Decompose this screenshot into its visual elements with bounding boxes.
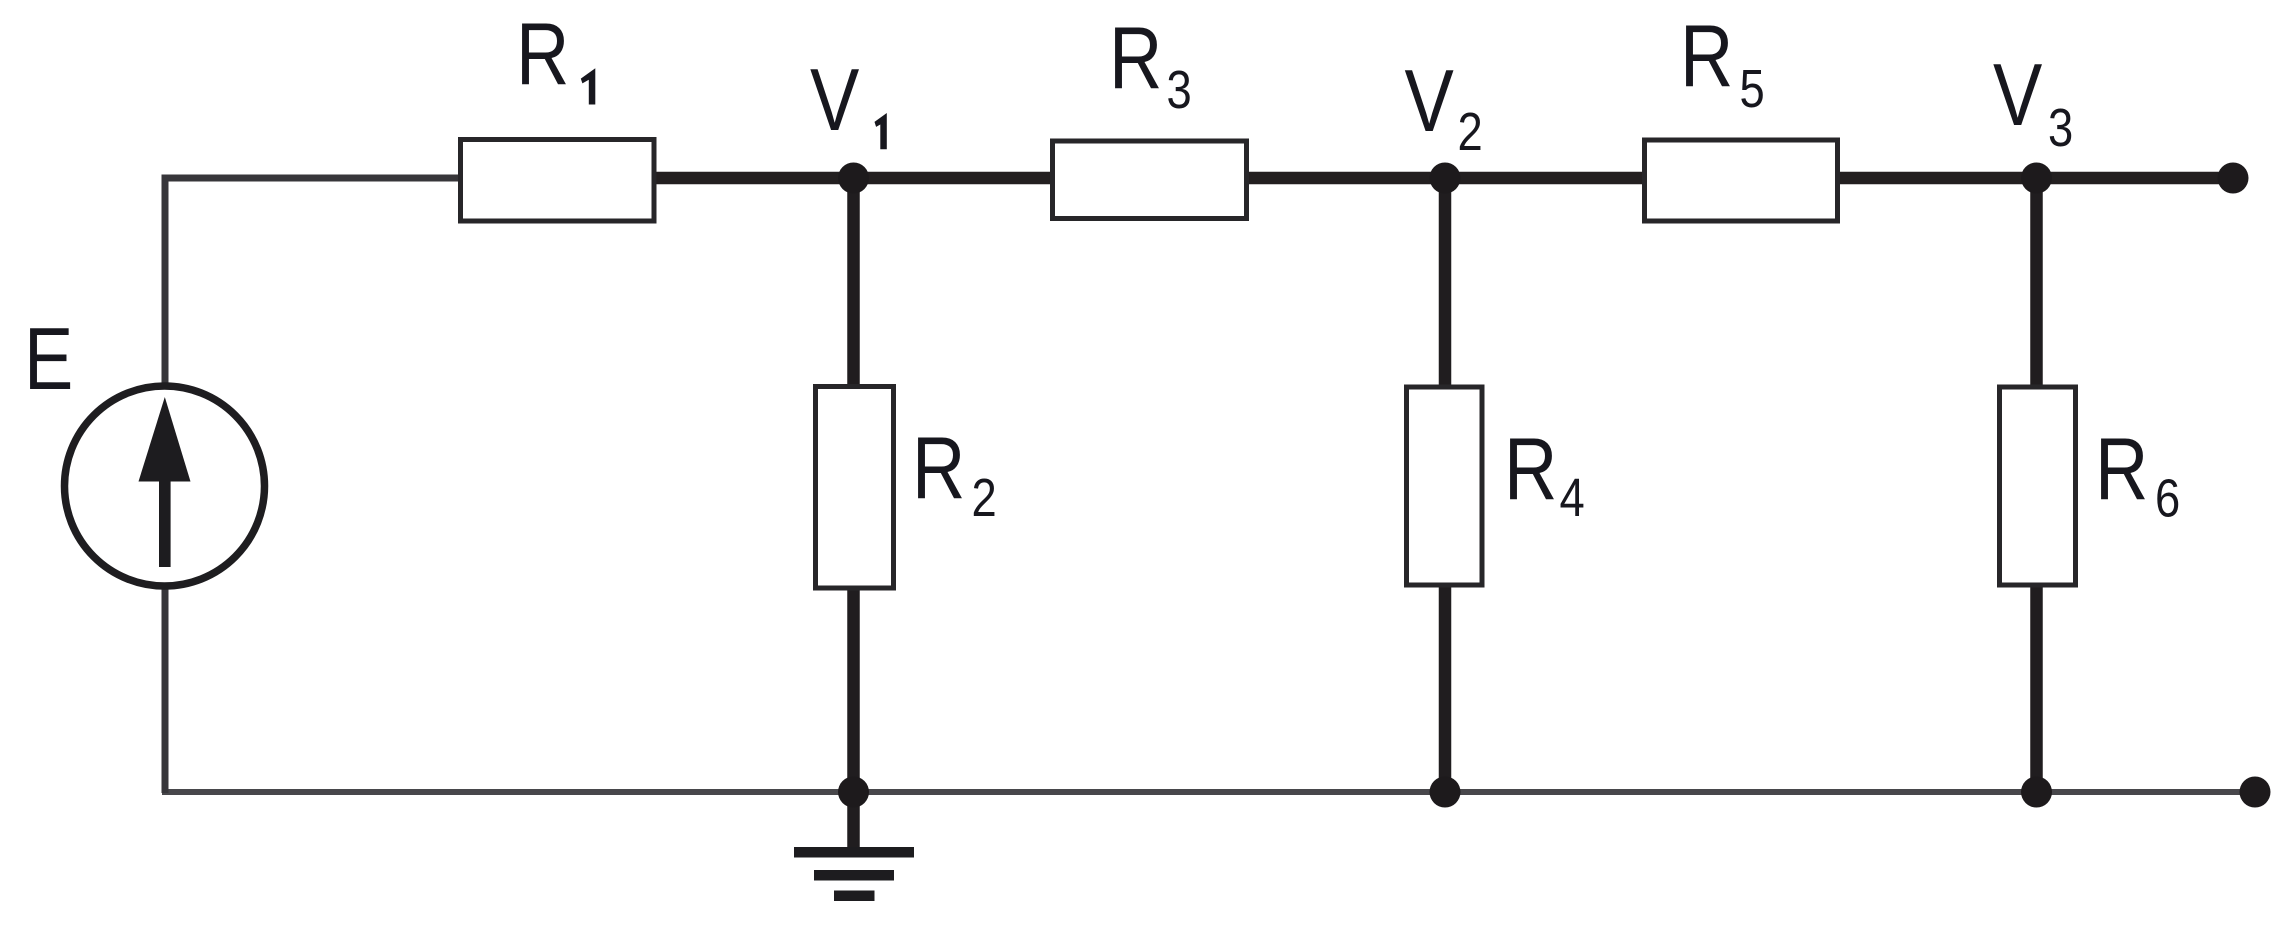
svg-text:4: 4 (1560, 467, 1585, 528)
svg-text:2: 2 (972, 467, 997, 528)
svg-text:3: 3 (1167, 59, 1192, 120)
svg-text:R: R (2095, 420, 2148, 519)
svg-text:3: 3 (2048, 97, 2073, 158)
svg-text:V: V (810, 51, 859, 150)
svg-text:E: E (24, 310, 73, 409)
svg-text:5: 5 (1740, 58, 1765, 119)
svg-text:6: 6 (2155, 468, 2180, 529)
svg-text:V: V (1993, 46, 2042, 145)
svg-text:R: R (1504, 420, 1557, 519)
svg-text:R: R (1680, 7, 1733, 106)
svg-text:R: R (516, 5, 569, 104)
svg-text:R: R (912, 419, 965, 518)
svg-text:V: V (1405, 52, 1454, 151)
svg-text:R: R (1109, 9, 1162, 108)
svg-text:2: 2 (1458, 101, 1483, 162)
